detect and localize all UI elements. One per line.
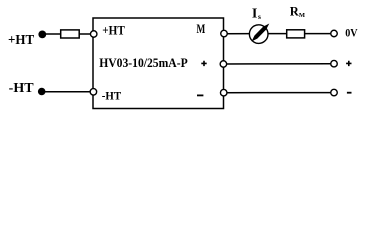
- terminal -HT on box: [90, 89, 97, 96]
- terminal + on box: [220, 61, 227, 68]
- module box HV03-10/25mA-P: [93, 18, 224, 109]
- wire M output row: [224, 33, 330, 35]
- terminal M on box: [221, 30, 228, 37]
- banana plug dot -HT: [38, 88, 46, 96]
- terminal - output: [331, 89, 338, 96]
- label - output: [347, 92, 352, 94]
- svg-text:M: M: [197, 22, 206, 36]
- resistor series protection (left): [61, 30, 79, 38]
- terminal - on box: [220, 89, 227, 96]
- terminal + output: [331, 60, 338, 66]
- svg-text:-HT: -HT: [102, 89, 121, 103]
- resistor RM: [287, 30, 305, 38]
- terminal +HT on box: [90, 31, 97, 38]
- wire +HT input row: [43, 33, 92, 35]
- label + output: [346, 61, 351, 66]
- label + pin: [201, 61, 206, 66]
- terminal 0V: [331, 30, 338, 37]
- meter needle: [252, 24, 270, 42]
- svg-text:+HT: +HT: [8, 33, 35, 48]
- meter Is: [249, 25, 268, 44]
- svg-text:-HT: -HT: [9, 81, 35, 96]
- banana plug dot +HT: [38, 31, 46, 39]
- wire - output row: [224, 92, 331, 94]
- wire + output row: [224, 63, 331, 65]
- wire -HT input row: [42, 91, 91, 93]
- svg-text:HV03-10/25mA-P: HV03-10/25mA-P: [99, 56, 188, 70]
- label - pin: [197, 94, 203, 96]
- svg-text:+HT: +HT: [102, 22, 125, 37]
- svg-text:0V: 0V: [345, 28, 358, 40]
